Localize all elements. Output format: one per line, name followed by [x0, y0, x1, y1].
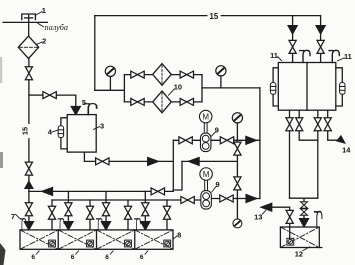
valve suction drop 4: [163, 206, 170, 219]
svg-text:6: 6: [71, 254, 75, 261]
svg-text:9: 9: [215, 126, 219, 135]
wire line 15 top right: [221, 15, 320, 17]
wire: [28, 139, 30, 162]
gauge G3: [236, 123, 238, 140]
valve below filter 2: [25, 67, 32, 80]
wire tank 12 feed stub: [303, 198, 305, 202]
deck filler cap 1: [22, 14, 36, 20]
wire filter branch bottom: [124, 101, 202, 103]
tank 12: [280, 227, 319, 248]
lower pump 9: [200, 168, 213, 209]
wire deck riser 15: [28, 80, 30, 124]
arrow into tank 6-1: [24, 222, 33, 230]
labels 6: [31, 251, 148, 261]
tank 12 cross: [280, 227, 319, 248]
scan smudges: [0, 57, 6, 265]
svg-text:7: 7: [11, 212, 15, 221]
svg-text:2: 2: [42, 37, 46, 46]
svg-text:14: 14: [342, 145, 351, 154]
wire tank 12 bottom tick: [319, 247, 322, 249]
filter 10 top valves: [131, 71, 144, 78]
label 12: [295, 247, 310, 259]
valve fill drop 2: [65, 203, 72, 216]
filter 10 bottom: [153, 91, 172, 113]
svg-text:6: 6: [105, 254, 109, 261]
vent 5 on tank 3: [84, 104, 96, 115]
tank 12 vent: [314, 212, 322, 227]
label 11 left: [270, 51, 281, 61]
filter 2: [18, 36, 38, 58]
manifold valve: [151, 188, 164, 195]
wire gauge G1 stem: [109, 76, 111, 90]
lower discharge: [212, 198, 260, 200]
wire: [303, 215, 305, 218]
wire fill drop 3: [105, 191, 107, 221]
deck label палуба: [38, 23, 68, 32]
svg-text:палуба: палуба: [45, 23, 69, 32]
tank divider 2: [96, 230, 98, 249]
wire filter outlet: [202, 87, 260, 89]
arrow line 13: [261, 203, 272, 211]
valve on tank 3 outlet: [96, 158, 109, 165]
filter 10 top: [153, 64, 172, 86]
valve tank 11 feed 1: [289, 40, 296, 53]
svg-text:11: 11: [344, 52, 352, 61]
flow arrow left on manifold: [42, 188, 53, 196]
wire: [28, 175, 30, 221]
label 7: [11, 212, 20, 221]
fill manifold: [29, 190, 173, 192]
valve tank 11 drain 1: [286, 118, 293, 131]
svg-text:15: 15: [21, 127, 30, 135]
tanks 11: [278, 63, 336, 111]
wire filter inlet: [95, 89, 125, 91]
tank 3: [67, 115, 96, 153]
wire line B return: [182, 160, 237, 162]
svg-text:15: 15: [210, 12, 219, 21]
valve fill drop 3: [102, 203, 109, 216]
tank row 6/8: [20, 230, 173, 249]
valve tank 12 feed upper: [301, 202, 308, 208]
upper pump suction: [173, 139, 200, 141]
valve fill drop 1: [25, 203, 32, 216]
wire filter manifold right: [201, 75, 203, 102]
svg-text:10: 10: [174, 83, 182, 92]
arrow into tank 6-2: [64, 222, 73, 230]
foot valve tank 6-2: [87, 240, 94, 247]
label 10: [169, 83, 183, 96]
arrow into tank 3: [71, 107, 80, 115]
wire level gauge 4 bottom: [61, 138, 67, 149]
wire filter branch top: [124, 74, 202, 76]
tank divider 3: [134, 230, 136, 249]
flow arrow left on B: [189, 158, 200, 166]
wire tank 11 drain 4 to line 14: [328, 110, 338, 140]
valve tank 11 feed 2: [317, 40, 324, 53]
wire tank 11 drain 2: [299, 110, 318, 140]
valve line 13: [286, 210, 293, 223]
wire deck riser upper: [28, 59, 30, 67]
wire suction drop 1: [51, 200, 53, 240]
wire tank 11 drain 1: [289, 110, 291, 198]
svg-text:13: 13: [254, 213, 262, 222]
label 3: [94, 122, 104, 131]
valve suction drop 3: [124, 206, 131, 219]
valve fill drop 4: [142, 203, 149, 216]
wire level gauge 4 top: [61, 118, 67, 126]
vent tank 6-2: [58, 219, 64, 230]
label 13: [254, 210, 266, 221]
arrow into tank 11-1: [288, 26, 297, 34]
wire fill drop 4: [144, 191, 146, 221]
suction manifold valve: [181, 197, 194, 204]
label 11 right: [338, 52, 352, 61]
flow arrow up: [25, 181, 33, 188]
tank 12 foot valve: [287, 238, 294, 245]
wire branch to tank 3: [29, 94, 43, 96]
wire: [320, 34, 322, 63]
valve tank 11 drain 4: [324, 118, 331, 131]
label 9 lower: [212, 180, 220, 192]
valve suction drop 2: [86, 206, 93, 219]
wire line 13 suction: [289, 223, 291, 239]
suction manifold: [52, 199, 201, 201]
label 1: [36, 6, 46, 15]
wire fill drop 2: [67, 191, 69, 221]
gauge G1: [105, 66, 115, 76]
label 8: [173, 231, 181, 240]
valve suction drop 1: [48, 206, 55, 219]
wire line B elbow: [173, 161, 182, 190]
wire tank 11 right gauge top: [336, 68, 343, 82]
wire suction drop 3: [127, 200, 129, 240]
foot valve tank 8: [164, 240, 171, 247]
line 15 left vertical: [94, 16, 96, 91]
tank 3 outlet wire: [84, 152, 173, 161]
upper pump 9: [199, 110, 212, 151]
valve on branch: [43, 92, 56, 99]
wire filter manifold left: [123, 75, 125, 102]
valve tank 11 drain 2: [296, 118, 303, 131]
valve tank 12 feed lower: [301, 209, 308, 215]
bottom loop: [290, 197, 318, 199]
flow arrow right: [148, 158, 159, 166]
wire deck pipe: [28, 15, 30, 36]
wire tank 11 drain 3: [317, 110, 319, 198]
svg-text:8: 8: [177, 231, 181, 240]
gauge G2: [216, 66, 226, 76]
svg-text:6: 6: [140, 254, 144, 261]
wire line 13: [272, 207, 290, 211]
tank crosses: [20, 230, 173, 249]
label 4: [48, 128, 58, 137]
wire tank 11 right gauge bottom: [336, 95, 343, 106]
arrow into tank 6-3: [102, 222, 111, 230]
svg-text:6: 6: [31, 254, 35, 261]
wire tank 11 feed 2: [320, 16, 322, 27]
foot valve tank 6-1: [49, 240, 56, 247]
valve tank 11 drain 3: [314, 118, 321, 131]
vent tank 11-1: [300, 50, 310, 62]
svg-text:12: 12: [295, 250, 303, 259]
svg-text:11: 11: [270, 51, 278, 60]
vent tank 6-3: [96, 219, 102, 230]
tanks 11 divider: [306, 63, 308, 111]
foot valve tank 6-3: [125, 240, 132, 247]
arrow 14: [336, 135, 346, 144]
arrow into tank 12: [300, 219, 309, 227]
valve on riser: [25, 162, 32, 175]
svg-text:1: 1: [42, 6, 46, 15]
label 2: [36, 37, 46, 46]
wire tank 11 feed 1: [292, 16, 294, 27]
arrow into tank 11-2: [316, 26, 325, 34]
vent 7 tank 6-1: [20, 219, 26, 230]
tank divider 1: [57, 230, 59, 249]
gauge G4: [236, 199, 238, 220]
wire suction drop 4: [166, 200, 168, 240]
vent tank 11-2: [329, 50, 339, 62]
level gauge 4: [58, 126, 63, 138]
label 9 upper: [212, 126, 219, 136]
node A riser: [172, 140, 174, 191]
wire: [56, 95, 76, 107]
wire suction drop 2: [89, 200, 91, 240]
riser to filters: [259, 88, 261, 199]
deck line: [3, 21, 47, 23]
filter 10 bottom valves: [131, 98, 144, 105]
wire tank 11 left gauge top: [273, 68, 278, 82]
wire: [292, 34, 294, 63]
arrow into tank 8: [141, 222, 150, 230]
svg-text:9: 9: [216, 180, 220, 189]
wire tank 11 left gauge bottom: [273, 95, 278, 106]
wire line 15 top left: [95, 15, 207, 17]
svg-text:3: 3: [100, 122, 104, 131]
upper discharge: [211, 139, 260, 141]
cross line with valves: [236, 140, 238, 198]
wire gauge G2 stem: [220, 76, 222, 88]
vent tank 8: [135, 219, 141, 230]
svg-text:5: 5: [82, 98, 86, 107]
